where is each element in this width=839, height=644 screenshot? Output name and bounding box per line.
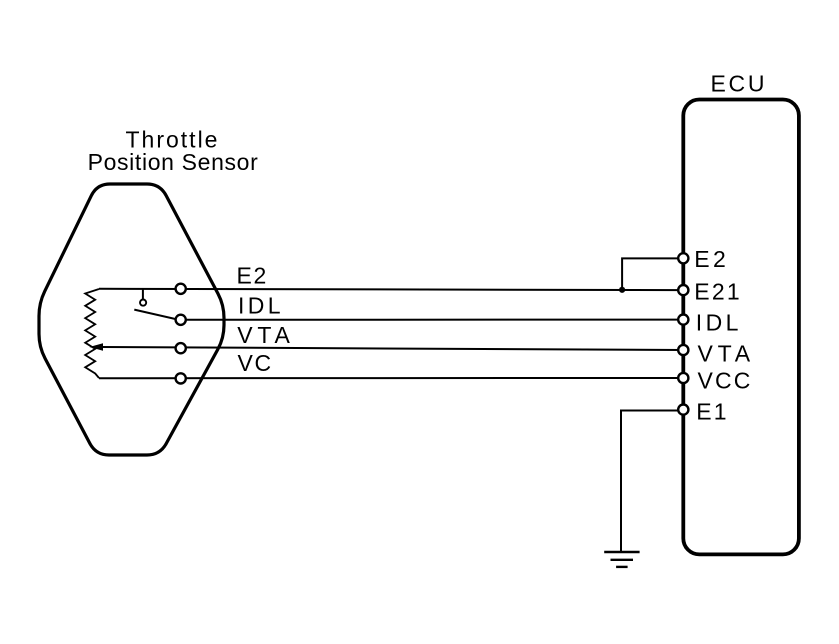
idle switch blade: [134, 310, 177, 320]
idle switch contact stub: [142, 289, 144, 300]
terminal IDL: [176, 315, 186, 325]
wire IDL (sensor terminal to ECU IDL pin): [181, 319, 684, 321]
svg-text:ECU: ECU: [711, 71, 768, 97]
terminal E2: [176, 284, 186, 294]
ECU pin E21: [678, 285, 688, 295]
svg-text:E2: E2: [237, 263, 268, 289]
svg-text:Position Sensor: Position Sensor: [88, 149, 259, 175]
svg-text:VTA: VTA: [237, 322, 294, 348]
svg-text:E21: E21: [694, 279, 742, 305]
ECU pin E1: [678, 405, 688, 415]
wire VC (sensor to ECU VCC pin): [99, 377, 683, 379]
ECU pin VTA: [678, 345, 688, 355]
svg-text:IDL: IDL: [696, 310, 742, 336]
throttle position sensor body: [39, 184, 224, 455]
wire VTA (wiper to ECU VTA pin): [101, 347, 683, 350]
wiper arrow (VTA contact): [89, 343, 103, 351]
wire E2 (sensor to ECU E21 pin): [99, 289, 683, 290]
ECU pin E2: [678, 253, 688, 263]
junction dot (E21 net): [619, 287, 625, 293]
svg-text:E2: E2: [694, 246, 729, 272]
label: Throttle Position Sensor: [88, 127, 259, 175]
svg-text:IDL: IDL: [238, 293, 284, 319]
terminal VC: [176, 373, 186, 383]
terminal VTA: [176, 343, 186, 353]
potentiometer resistive track: [85, 289, 99, 378]
jumper wire E2 pin to E21 net: [622, 258, 679, 289]
svg-text:VTA: VTA: [698, 341, 755, 367]
idle switch contact: [140, 300, 146, 306]
svg-text:VC: VC: [238, 350, 273, 376]
ECU box: [683, 100, 799, 555]
wire E1 pin to ground: [621, 411, 679, 552]
ECU pin IDL: [678, 315, 688, 325]
ground symbol: [604, 552, 639, 567]
svg-text:VCC: VCC: [698, 368, 753, 394]
ECU pin VCC: [678, 373, 688, 383]
svg-text:E1: E1: [696, 399, 728, 425]
